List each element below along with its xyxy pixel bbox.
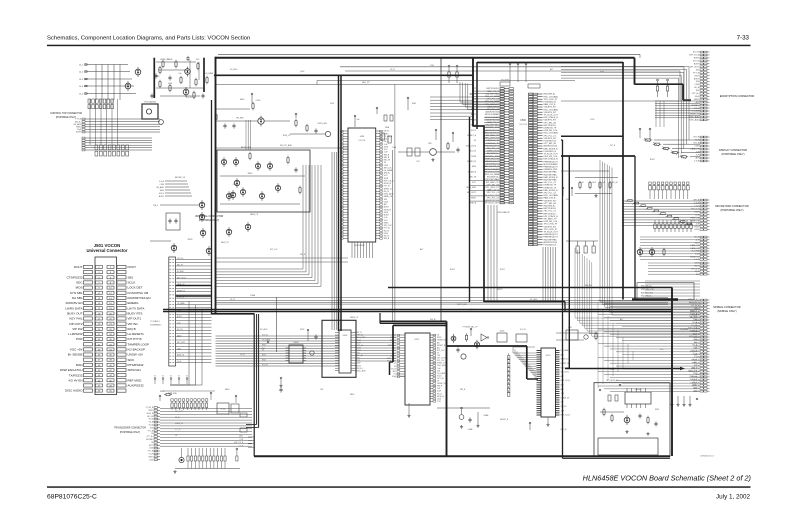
svg-text:LH_DATA: LH_DATA <box>437 372 446 375</box>
svg-text:IRQ1/SW_B+: IRQ1/SW_B+ <box>641 296 652 298</box>
svg-text:DOUT: DOUT <box>128 265 137 269</box>
svg-text:SCLK: SCLK <box>128 281 136 285</box>
svg-text:MOS: MOS <box>76 286 83 290</box>
svg-text:.1uF: .1uF <box>694 365 697 367</box>
svg-text:DISP_EN_LCH: DISP_EN_LCH <box>641 289 654 291</box>
svg-text:VIP_OUT1: VIP_OUT1 <box>175 411 183 413</box>
svg-text:D13: D13 <box>150 427 153 429</box>
svg-text:MAN: MAN <box>76 363 83 367</box>
svg-text:TX_EN_B: TX_EN_B <box>689 330 697 332</box>
svg-text:A17: A17 <box>393 370 396 373</box>
svg-text:0.1uF: 0.1uF <box>694 161 700 163</box>
svg-text:CE_B: CE_B <box>240 354 245 356</box>
svg-text:EXP_DTACK_B: EXP_DTACK_B <box>544 215 559 218</box>
svg-text:KG_5V: KG_5V <box>520 329 527 331</box>
svg-text:A17: A17 <box>694 361 697 364</box>
svg-text:C541: C541 <box>430 65 434 67</box>
svg-text:LH/RX DATA: LH/RX DATA <box>65 306 82 310</box>
svg-text:EXP_CS_B: EXP_CS_B <box>688 328 698 330</box>
svg-text:UNSW_5V: UNSW_5V <box>690 114 700 116</box>
svg-text:C541: C541 <box>693 390 697 392</box>
svg-text:51,C,14: 51,C,14 <box>519 124 527 126</box>
svg-text:RX_AUD: RX_AUD <box>530 298 538 301</box>
svg-text:TX_EN_B: TX_EN_B <box>689 313 697 315</box>
svg-text:C503: C503 <box>694 84 699 86</box>
svg-text:UNSW_5V: UNSW_5V <box>160 59 169 61</box>
svg-text:ADDR23/CS10: ADDR23/CS10 <box>486 111 500 114</box>
svg-text:MISO: MISO <box>225 389 230 391</box>
svg-text:INT_B: INT_B <box>610 145 616 147</box>
svg-text:MIC_HI: MIC_HI <box>147 416 153 418</box>
svg-text:(PORTABLE ONLY): (PORTABLE ONLY) <box>722 152 745 156</box>
svg-text:A12: A12 <box>420 248 423 251</box>
svg-text:PCS0/SIZ0_B: PCS0/SIZ0_B <box>544 245 557 247</box>
svg-text:OPT_B+: OPT_B+ <box>560 429 567 431</box>
svg-text:C503: C503 <box>590 119 594 121</box>
svg-text:C503: C503 <box>693 348 697 350</box>
svg-text:KEYED_5V: KEYED_5V <box>175 177 186 179</box>
svg-text:RX/TX_B/D: RX/TX_B/D <box>457 304 467 306</box>
svg-text:BUSY: BUSY <box>694 64 700 66</box>
svg-text:RESET_B: RESET_B <box>177 290 186 292</box>
svg-text:LOCK DET: LOCK DET <box>128 286 143 290</box>
svg-text:C503: C503 <box>149 459 153 461</box>
svg-text:U570: U570 <box>546 355 551 357</box>
svg-text:WR_B: WR_B <box>300 254 306 256</box>
svg-text:R533: R533 <box>300 329 304 331</box>
svg-text:LH_DATA: LH_DATA <box>680 328 689 331</box>
svg-text:BUSY: BUSY <box>694 58 700 60</box>
svg-text:RESET_B: RESET_B <box>500 419 509 421</box>
svg-text:PA_5: PA_5 <box>154 204 158 207</box>
svg-text:EXP_CS_B: EXP_CS_B <box>234 442 244 444</box>
svg-text:U506: U506 <box>500 331 505 333</box>
svg-text:U501: U501 <box>177 348 181 350</box>
svg-text:DISC AUDIO: DISC AUDIO <box>65 389 83 393</box>
svg-text:8480645Z01-O: 8480645Z01-O <box>701 456 715 458</box>
svg-text:IRQ7/KEYFAIL: IRQ7/KEYFAIL <box>544 238 558 241</box>
svg-text:EXP_CS_B: EXP_CS_B <box>688 299 698 301</box>
svg-text:RX_AUD: RX_AUD <box>230 68 238 71</box>
svg-text:(PORTABLE ONLY): (PORTABLE ONLY) <box>120 431 141 434</box>
svg-text:RX/TX: RX/TX <box>497 289 503 291</box>
svg-text:VIP IN1: VIP IN1 <box>128 322 139 326</box>
svg-text:BUSY OUT: BUSY OUT <box>67 311 82 315</box>
svg-text:VIP OUT1: VIP OUT1 <box>128 317 142 321</box>
svg-text:VIP_OUT1: VIP_OUT1 <box>690 66 699 68</box>
svg-text:RXD_LH_DATA: RXD_LH_DATA <box>544 194 559 197</box>
svg-text:A17: A17 <box>620 318 623 321</box>
svg-text:R517: R517 <box>149 445 153 447</box>
svg-text:IRQ7/KEYFAIL: IRQ7/KEYFAIL <box>544 173 558 176</box>
svg-text:MOBILE CONNECTOR: MOBILE CONNECTOR <box>713 305 740 309</box>
svg-text:HLN6458E VOCON Board Schematic: HLN6458E VOCON Board Schematic (Sheet 2 … <box>583 474 751 483</box>
svg-text:MISO: MISO <box>471 197 476 199</box>
svg-text:IRQ7/KEYFAIL: IRQ7/KEYFAIL <box>486 178 500 181</box>
svg-text:OSCILLATOR: OSCILLATOR <box>497 211 510 214</box>
svg-text:AUDIO PA: AUDIO PA <box>241 146 251 149</box>
svg-text:B+ SENSE: B+ SENSE <box>68 353 83 357</box>
svg-text:REF MOD: REF MOD <box>128 378 143 382</box>
svg-text:BUSY: BUSY <box>76 132 82 134</box>
svg-text:C503: C503 <box>592 182 596 184</box>
svg-text:RXD_LH_DATA: RXD_LH_DATA <box>485 173 500 176</box>
svg-text:UNSW_5V: UNSW_5V <box>175 423 184 425</box>
svg-text:EXP_DTACK_B: EXP_DTACK_B <box>544 116 559 119</box>
svg-text:BUSY: BUSY <box>159 196 165 198</box>
svg-text:DISC_AUD: DISC_AUD <box>387 357 397 360</box>
svg-text:BUSY: BUSY <box>500 269 506 271</box>
svg-text:C51: C51 <box>416 161 419 163</box>
svg-text:MISO: MISO <box>177 335 182 337</box>
svg-text:LH_DATA: LH_DATA <box>384 169 393 172</box>
svg-text:TX_EN_B: TX_EN_B <box>689 379 697 381</box>
svg-text:OSC/LOGIC: OSC/LOGIC <box>354 245 366 247</box>
svg-text:CE_B: CE_B <box>230 299 235 301</box>
svg-text:VR_SEL: VR_SEL <box>236 118 245 120</box>
svg-text:LH_DATA: LH_DATA <box>177 302 185 305</box>
svg-text:INT PTT B: INT PTT B <box>128 337 142 341</box>
svg-text:EMERG: EMERG <box>128 301 140 305</box>
svg-text:VOC +5V: VOC +5V <box>70 348 83 352</box>
svg-text:PTT_B: PTT_B <box>175 429 181 431</box>
svg-text:A17: A17 <box>696 157 699 160</box>
svg-text:AUX/RS232: AUX/RS232 <box>128 384 145 388</box>
svg-text:R540: R540 <box>248 173 253 175</box>
svg-text:PTT/DET_AU_TP: PTT/DET_AU_TP <box>462 326 478 329</box>
svg-text:C503: C503 <box>693 339 697 341</box>
svg-text:CE_B: CE_B <box>390 69 395 71</box>
svg-text:VIP_OUT1: VIP_OUT1 <box>177 342 185 344</box>
svg-text:LH RESET1: LH RESET1 <box>128 332 145 336</box>
svg-text:0.1uF: 0.1uF <box>239 446 243 448</box>
svg-text:FL500: FL500 <box>220 409 225 411</box>
svg-text:C541: C541 <box>694 146 699 148</box>
svg-text:A17: A17 <box>437 341 440 344</box>
svg-text:RAM_CS2_B: RAM_CS2_B <box>544 103 557 106</box>
svg-text:EXP_CS_B: EXP_CS_B <box>177 277 187 279</box>
svg-text:A17: A17 <box>384 203 387 206</box>
svg-text:AUX_TX: AUX_TX <box>221 241 229 244</box>
svg-text:DISC_AUD: DISC_AUD <box>689 119 699 122</box>
svg-text:SPKR EN: SPKR EN <box>128 368 141 372</box>
svg-text:U501: U501 <box>239 435 243 437</box>
svg-text:RXD_LH_DATA: RXD_LH_DATA <box>544 95 559 98</box>
svg-text:A17: A17 <box>550 68 553 71</box>
svg-text:AUDIO PA: AUDIO PA <box>397 375 406 378</box>
svg-text:POS 5A/5TA: POS 5A/5TA <box>144 101 156 104</box>
svg-text:ROW/MTXFA EN: ROW/MTXFA EN <box>128 296 151 300</box>
svg-text:SW_B+: SW_B+ <box>561 406 567 408</box>
svg-text:SPKR_LO: SPKR_LO <box>561 359 570 361</box>
svg-text:KEYFAIL: KEYFAIL <box>691 104 699 107</box>
svg-text:KEYFAIL: KEYFAIL <box>146 438 153 441</box>
svg-text:BUSY: BUSY <box>650 159 656 161</box>
svg-text:TRANSCEIVER CONNECTOR: TRANSCEIVER CONNECTOR <box>114 427 146 430</box>
svg-text:WR_B: WR_B <box>692 350 698 352</box>
svg-text:R517: R517 <box>694 226 699 228</box>
svg-text:LH_DATA: LH_DATA <box>561 349 570 352</box>
svg-text:(MOBILE ONLY): (MOBILE ONLY) <box>717 309 736 313</box>
svg-text:PTT_B: PTT_B <box>148 430 154 432</box>
svg-text:SCLK: SCLK <box>159 193 165 195</box>
svg-text:VIP OUT2: VIP OUT2 <box>69 322 83 326</box>
svg-text:KG BACKUP: KG BACKUP <box>128 348 146 352</box>
svg-text:BDM_CK: BDM_CK <box>177 297 185 299</box>
svg-text:Q502: Q502 <box>300 71 304 73</box>
svg-text:D13: D13 <box>694 356 697 358</box>
svg-text:DISC_AUD: DISC_AUD <box>357 369 367 372</box>
svg-text:47pF: 47pF <box>693 359 697 361</box>
svg-text:LH/TX DATA: LH/TX DATA <box>128 306 145 310</box>
svg-text:PTT_B: PTT_B <box>693 72 700 74</box>
svg-text:AVL_PT: AVL_PT <box>362 81 370 84</box>
svg-text:VIP_OUT1: VIP_OUT1 <box>561 372 570 374</box>
svg-text:ROW/5V EN: ROW/5V EN <box>66 301 83 305</box>
svg-text:BDM_CK: BDM_CK <box>283 135 291 137</box>
svg-text:Q502: Q502 <box>693 387 697 389</box>
svg-text:KG_5V: KG_5V <box>186 97 193 99</box>
svg-text:SCLK: SCLK <box>694 108 700 110</box>
svg-text:D13: D13 <box>660 349 663 351</box>
svg-text:TX_EN_B: TX_EN_B <box>145 407 153 409</box>
svg-text:C5BA: C5BA <box>250 294 256 297</box>
svg-text:SDO: SDO <box>128 358 135 362</box>
svg-text:WR_B: WR_B <box>460 389 466 391</box>
svg-text:UNSW_5V: UNSW_5V <box>689 336 698 338</box>
svg-text:VIP_OUT1: VIP_OUT1 <box>467 192 476 194</box>
svg-text:51,C,14: 51,C,14 <box>359 140 366 142</box>
svg-text:VIP IN2: VIP IN2 <box>72 327 83 331</box>
svg-text:MISO: MISO <box>149 410 154 412</box>
svg-text:LH_DATA: LH_DATA <box>691 110 700 113</box>
svg-text:KG_5V: KG_5V <box>693 61 700 63</box>
svg-text:RESET_B: RESET_B <box>561 363 570 365</box>
svg-text:0.1uF: 0.1uF <box>177 361 181 363</box>
svg-text:KG_5V: KG_5V <box>177 329 183 331</box>
svg-text:RAM_CS2_B: RAM_CS2_B <box>487 189 500 192</box>
svg-text:Schematics, Component Location: Schematics, Component Location Diagrams,… <box>47 36 250 42</box>
svg-text:D13: D13 <box>196 59 199 61</box>
svg-text:SPKR_LO: SPKR_LO <box>689 376 697 378</box>
svg-text:C503: C503 <box>159 184 164 186</box>
svg-text:MIC_HI: MIC_HI <box>177 265 183 267</box>
svg-text:DATA_CK: DATA_CK <box>350 316 359 319</box>
svg-text:RESET_B: RESET_B <box>690 217 699 219</box>
svg-text:Universal Connector: Universal Connector <box>87 248 128 253</box>
svg-text:PTT_B: PTT_B <box>148 451 154 453</box>
svg-text:RX_AUD: RX_AUD <box>260 328 268 331</box>
svg-text:LH_DATA: LH_DATA <box>205 72 214 75</box>
svg-text:MODCK/DATA7: MODCK/DATA7 <box>544 163 559 166</box>
svg-text:MISO: MISO <box>694 99 699 101</box>
svg-text:TO RADIO: TO RADIO <box>150 320 160 323</box>
svg-text:RESET_B: RESET_B <box>467 135 476 137</box>
svg-text:BUSY RTS: BUSY RTS <box>128 311 143 315</box>
svg-text:RX_AUD: RX_AUD <box>74 123 82 126</box>
svg-text:CTS/RS232: CTS/RS232 <box>66 275 82 279</box>
svg-text:R517: R517 <box>262 360 266 362</box>
svg-text:C5AB: C5AB <box>468 428 473 431</box>
svg-text:KG_5V: KG_5V <box>693 52 700 54</box>
svg-text:July 1, 2002: July 1, 2002 <box>716 494 750 501</box>
svg-text:KG_5V: KG_5V <box>262 335 269 337</box>
svg-text:DATA_CK: DATA_CK <box>250 213 259 216</box>
svg-text:MIC/KEYPAD CONNECTOR: MIC/KEYPAD CONNECTOR <box>715 204 748 208</box>
svg-text:DOUT: DOUT <box>74 265 83 269</box>
svg-text:ADDR23/CS10: ADDR23/CS10 <box>641 291 653 294</box>
svg-text:SW_B+: SW_B+ <box>585 285 593 287</box>
svg-text:WR_B: WR_B <box>694 200 700 202</box>
svg-text:OPT_B+: OPT_B+ <box>692 93 700 95</box>
svg-text:0.1uF: 0.1uF <box>159 181 165 183</box>
svg-text:RXD_LH_DATA: RXD_LH_DATA <box>544 132 559 135</box>
svg-text:CE_B: CE_B <box>694 87 700 89</box>
svg-text:C503: C503 <box>693 319 697 321</box>
svg-text:BDM_CK: BDM_CK <box>690 311 698 313</box>
svg-text:R517: R517 <box>262 345 266 347</box>
svg-text:EXP_CS_B: EXP_CS_B <box>688 370 698 372</box>
svg-text:R533: R533 <box>471 156 476 158</box>
svg-text:(PORTABLE ONLY): (PORTABLE ONLY) <box>721 208 744 212</box>
svg-text:KG_5V: KG_5V <box>692 325 698 327</box>
svg-text:R517: R517 <box>694 75 699 77</box>
svg-text:U2B: U2B <box>360 136 365 138</box>
svg-text:DISPLAY CONNECTOR: DISPLAY CONNECTOR <box>719 148 747 152</box>
svg-text:U5C: U5C <box>428 143 432 145</box>
svg-text:KEY FAIL: KEY FAIL <box>70 317 83 321</box>
svg-text:MISO: MISO <box>350 394 355 396</box>
svg-text:TX/RS232: TX/RS232 <box>69 373 83 377</box>
svg-text:MISO: MISO <box>149 456 154 458</box>
svg-text:UNSW_5V: UNSW_5V <box>467 161 477 163</box>
svg-text:RESET_B: RESET_B <box>690 220 699 222</box>
svg-text:VIP_OUT1: VIP_OUT1 <box>689 302 697 304</box>
svg-text:ENCRYPTION CONNECTOR: ENCRYPTION CONNECTOR <box>720 94 754 98</box>
svg-text:R533: R533 <box>694 229 699 231</box>
svg-text:RX_FLT_AUD: RX_FLT_AUD <box>280 144 293 147</box>
svg-text:IRQ7/KEYFAIL: IRQ7/KEYFAIL <box>544 179 558 182</box>
svg-text:RTS/RS232: RTS/RS232 <box>128 363 144 367</box>
svg-text:L H/RS232: L H/RS232 <box>68 332 83 336</box>
svg-text:A12: A12 <box>694 341 697 344</box>
svg-text:47pF: 47pF <box>693 382 697 384</box>
svg-text:LH_DATA: LH_DATA <box>262 339 271 342</box>
svg-text:R528: R528 <box>188 239 193 241</box>
svg-text:DISP EN/LATCH: DISP EN/LATCH <box>60 368 82 372</box>
svg-text:68P81076C25-C: 68P81076C25-C <box>47 494 97 501</box>
svg-text:EXP_CS_B: EXP_CS_B <box>689 55 700 57</box>
svg-text:TAMPER LOOP: TAMPER LOOP <box>128 342 149 346</box>
svg-text:MISO: MISO <box>240 99 245 101</box>
svg-text:KG_5V: KG_5V <box>470 151 477 153</box>
svg-text:SB1: SB1 <box>128 275 134 279</box>
svg-text:U501: U501 <box>693 385 697 387</box>
svg-text:DISC_AUD: DISC_AUD <box>437 364 447 367</box>
svg-text:MIC_HI: MIC_HI <box>470 177 477 179</box>
svg-text:KG_5V: KG_5V <box>262 365 269 367</box>
svg-text:DA SBL: DA SBL <box>72 296 83 300</box>
svg-text:SCLK: SCLK <box>471 130 477 132</box>
svg-text:SCHEMATIC: SCHEMATIC <box>150 324 162 327</box>
svg-text:UNSW +5V: UNSW +5V <box>128 353 143 357</box>
svg-text:IRQ B: IRQ B <box>128 327 136 331</box>
svg-text:EXP_DTACK_B: EXP_DTACK_B <box>544 158 559 161</box>
svg-text:RX_AUD: RX_AUD <box>156 186 164 189</box>
svg-text:ADDR23/CS10: ADDR23/CS10 <box>544 145 558 148</box>
svg-text:A17: A17 <box>696 101 699 104</box>
svg-text:SYN SBL: SYN SBL <box>70 291 83 295</box>
svg-text:MCU_RXD: MCU_RXD <box>467 187 477 189</box>
svg-text:IRQ7/KEYFAIL: IRQ7/KEYFAIL <box>544 171 558 174</box>
svg-text:RXD_LH_DATA: RXD_LH_DATA <box>544 108 559 111</box>
svg-text:OPT_B+: OPT_B+ <box>177 258 184 260</box>
svg-text:100K: 100K <box>160 190 165 192</box>
svg-text:ODC: ODC <box>76 281 84 285</box>
svg-text:100K: 100K <box>472 166 477 168</box>
svg-text:WR_B: WR_B <box>692 368 698 370</box>
svg-text:R561: R561 <box>655 409 659 411</box>
svg-text:0.1uF: 0.1uF <box>693 333 697 335</box>
svg-text:TP_SCLK_OUT: TP_SCLK_OUT <box>485 203 500 205</box>
svg-text:VCC: VCC <box>472 182 477 184</box>
svg-text:U501: U501 <box>330 103 334 105</box>
svg-text:KOS/OPSC CB: KOS/OPSC CB <box>128 291 149 295</box>
svg-text:U500: U500 <box>520 119 526 122</box>
svg-text:R517: R517 <box>262 355 266 357</box>
svg-text:POR: POR <box>76 337 83 341</box>
svg-text:DATA_CK: DATA_CK <box>384 195 393 198</box>
svg-text:RAM_CS2_B: RAM_CS2_B <box>544 197 557 200</box>
svg-text:BDM_CK: BDM_CK <box>177 355 185 357</box>
svg-text:U5XX_EN: U5XX_EN <box>317 123 327 125</box>
svg-text:C541: C541 <box>693 373 697 375</box>
svg-text:SW_B+: SW_B+ <box>691 305 697 307</box>
svg-text:CONTROL TOP CONNECTOR: CONTROL TOP CONNECTOR <box>50 113 82 115</box>
svg-text:ADDR23/CS10: ADDR23/CS10 <box>544 241 558 244</box>
svg-text:R5AB: R5AB <box>484 414 489 417</box>
svg-text:ADDR23/CS10: ADDR23/CS10 <box>486 199 500 202</box>
svg-text:EXP_CS_B: EXP_CS_B <box>466 145 477 147</box>
svg-text:BUSY: BUSY <box>450 269 456 271</box>
svg-text:(PORTABLE ONLY): (PORTABLE ONLY) <box>56 116 77 119</box>
svg-text:WR_B: WR_B <box>384 238 390 240</box>
svg-text:BUSY: BUSY <box>694 78 700 80</box>
svg-text:KG 4V EN: KG 4V EN <box>69 378 83 382</box>
svg-text:7-33: 7-33 <box>737 35 750 42</box>
svg-text:MODCK/DATA7: MODCK/DATA7 <box>485 113 500 116</box>
svg-text:A12: A12 <box>437 346 440 349</box>
svg-text:INT_B: INT_B <box>694 137 700 139</box>
svg-text:R533: R533 <box>610 369 614 371</box>
svg-text:0.1uF: 0.1uF <box>149 454 153 456</box>
svg-text:LH_DATA: LH_DATA <box>690 315 698 318</box>
svg-text:MIC_HI: MIC_HI <box>612 182 619 184</box>
svg-text:DISC_AUD: DISC_AUD <box>689 116 699 119</box>
svg-text:SPI_CLK: SPI_CLK <box>270 249 278 251</box>
svg-text:RX_AUD: RX_AUD <box>177 270 185 273</box>
svg-text:MOSI_B: MOSI_B <box>147 413 154 415</box>
svg-text:OPT_B+: OPT_B+ <box>146 436 153 438</box>
